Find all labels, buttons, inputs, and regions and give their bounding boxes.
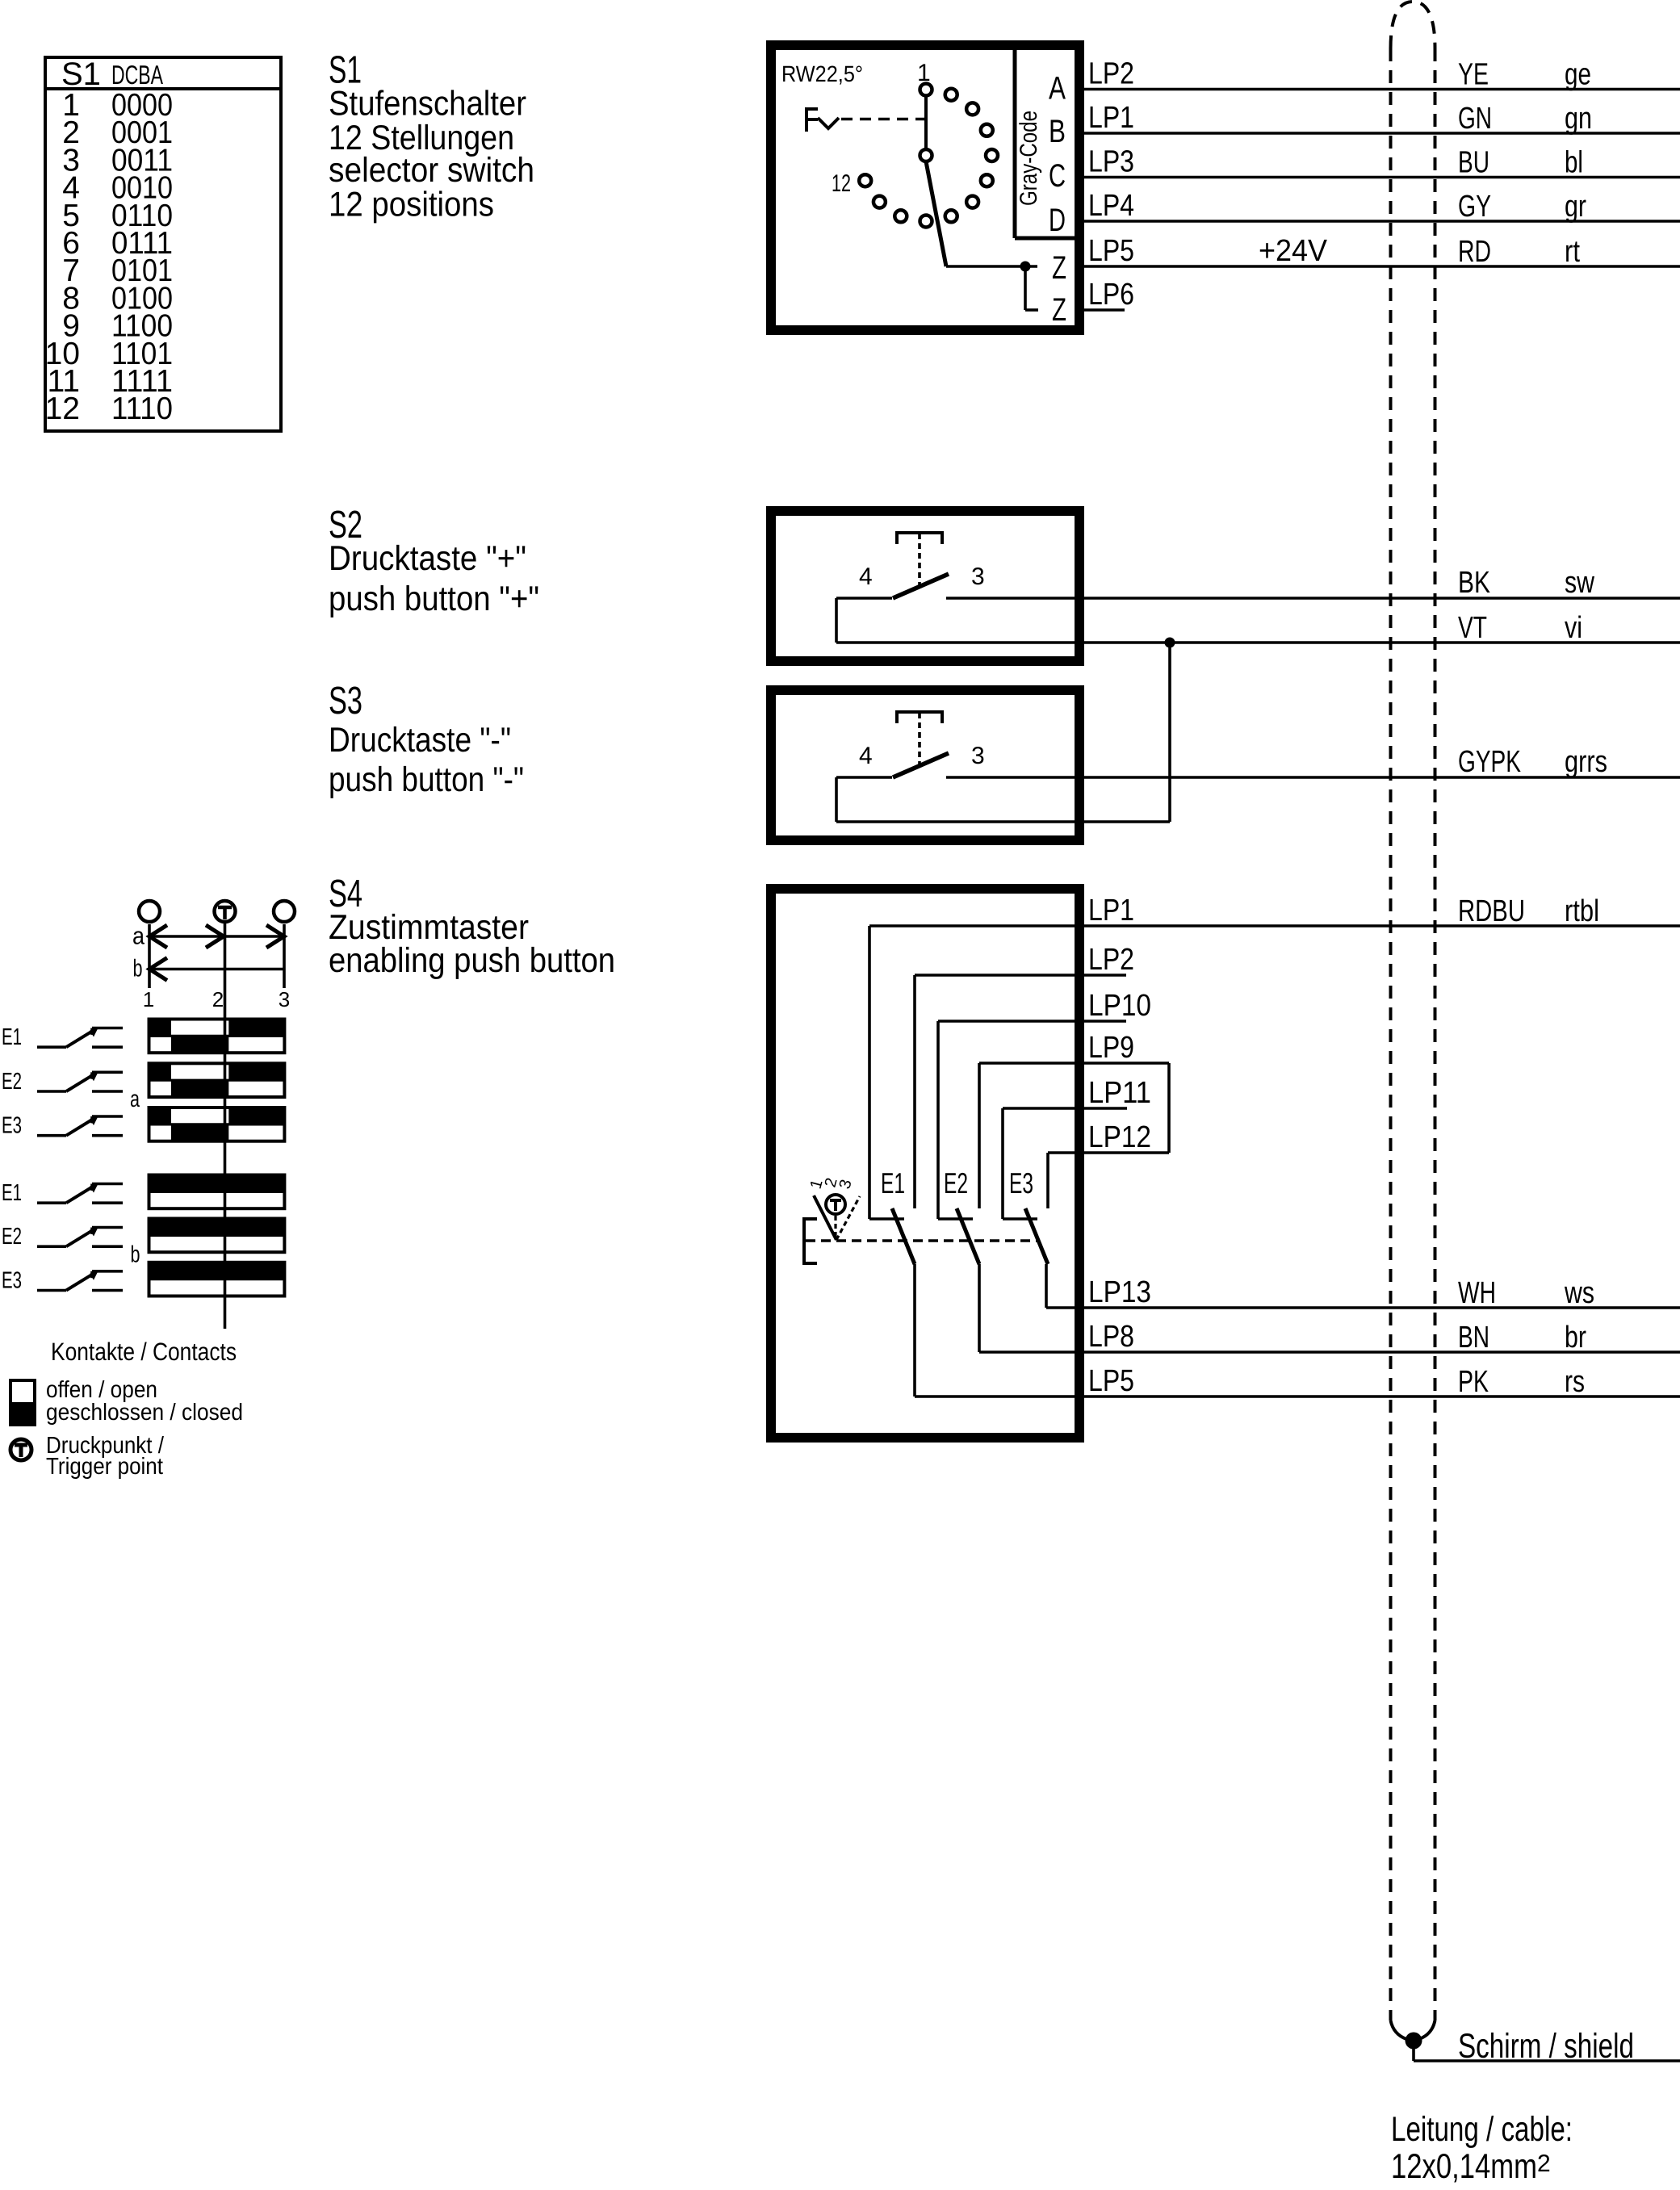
svg-text:b: b: [131, 1242, 140, 1267]
svg-text:D: D: [1049, 203, 1066, 238]
E2 moving lead: [37, 1245, 66, 1248]
travel diagram circle released: [139, 901, 160, 922]
svg-text:GY: GY: [1458, 190, 1491, 224]
svg-text:LP2: LP2: [1088, 943, 1134, 977]
travel diagram right tick line: [283, 924, 286, 988]
wire LP10 stub: [938, 1020, 1126, 1023]
svg-text:geschlossen / closed: geschlossen / closed: [46, 1400, 243, 1426]
S1 manual actuator symbol: [805, 107, 808, 132]
S4 actuator bracket: [804, 1219, 817, 1263]
svg-text:4: 4: [859, 743, 873, 769]
S1 code table header divider: [45, 87, 281, 90]
svg-text:rs: rs: [1565, 1365, 1585, 1399]
travel diagram circle trigger point: [215, 901, 236, 922]
wire riser S3 to VT junction: [1168, 643, 1171, 822]
E2 upper fixed contact: [92, 1226, 123, 1229]
svg-text:a: a: [130, 1087, 140, 1112]
svg-text:3: 3: [836, 1178, 856, 1191]
svg-text:E1: E1: [2, 1180, 22, 1206]
svg-text:BN: BN: [1458, 1321, 1489, 1355]
E2 upper fixed contact: [92, 1071, 123, 1074]
svg-text:Kontakte / Contacts: Kontakte / Contacts: [51, 1338, 237, 1366]
svg-text:Schirm / shield: Schirm / shield: [1458, 2027, 1634, 2066]
contact state bar E3 group b: [149, 1262, 285, 1279]
svg-text:A: A: [1049, 71, 1066, 107]
contact state bar E1 group b: [149, 1175, 285, 1192]
svg-text:4: 4: [859, 563, 873, 590]
E3 blade: [66, 1272, 96, 1291]
shield lead vertical: [1412, 2048, 1415, 2061]
svg-text:RD: RD: [1458, 235, 1491, 269]
svg-text:Z: Z: [1052, 250, 1066, 286]
svg-text:E3: E3: [2, 1113, 22, 1139]
contact state bar E3 group a: [149, 1108, 171, 1124]
E1 blade: [66, 1029, 96, 1048]
wire LP8 BN: [979, 1350, 1680, 1354]
svg-text:S1: S1: [61, 57, 101, 92]
S1 rotary contact position 3: [966, 103, 978, 115]
wire from S3 pin 4: [836, 820, 1170, 823]
S1 wiper arm: [926, 161, 946, 266]
svg-text:+24V: +24V: [1259, 234, 1328, 268]
wire LP13 WH: [1046, 1306, 1680, 1309]
wire LP1 GN: [1078, 132, 1680, 135]
svg-text:LP1: LP1: [1088, 101, 1134, 135]
legend open state box: [10, 1380, 35, 1404]
S1 rotor hub contact: [920, 149, 932, 161]
shield gather right curl: [1419, 2020, 1435, 2039]
svg-text:12x0,14mm: 12x0,14mm: [1391, 2147, 1537, 2186]
svg-text:push button "-": push button "-": [329, 760, 524, 799]
wire LP6 stub: [1078, 308, 1125, 312]
S1 rotary contact position 11: [874, 196, 886, 208]
S4 travel line 1 solid: [814, 1195, 836, 1240]
S4 internal wire LP2 vertical: [913, 975, 916, 1208]
junction node Z: [1020, 262, 1031, 272]
E3 blade: [66, 1117, 96, 1136]
svg-text:RW22,5°: RW22,5°: [781, 61, 863, 86]
travel b left arrowhead: [149, 958, 167, 981]
svg-text:LP12: LP12: [1088, 1120, 1151, 1154]
E3 upper fixed contact: [92, 1115, 123, 1118]
svg-text:LP10: LP10: [1088, 989, 1151, 1023]
push button S2 enclosure: [771, 511, 1079, 661]
S4 internal wire LP1 vertical: [868, 926, 871, 1219]
travel diagram centre line: [224, 923, 227, 1329]
S4 internal wire LP12 vertical: [1046, 1153, 1049, 1208]
S4 E3 fixed contact seat: [1003, 1217, 1037, 1221]
svg-text:S3: S3: [329, 680, 362, 722]
enabling push button S4 enclosure: [771, 889, 1079, 1438]
svg-text:LP6: LP6: [1088, 278, 1134, 312]
svg-text:LP9: LP9: [1088, 1031, 1134, 1065]
E1 lower fixed contact: [92, 1201, 123, 1204]
S4 E2 fixed contact seat: [938, 1217, 973, 1221]
svg-text:12: 12: [832, 170, 851, 197]
E1 lower fixed contact: [92, 1045, 123, 1049]
S4 E1 output vertical: [913, 1264, 916, 1396]
svg-text:E2: E2: [2, 1069, 22, 1095]
svg-text:E2: E2: [944, 1166, 968, 1200]
svg-text:RDBU: RDBU: [1458, 894, 1525, 928]
svg-text:3: 3: [971, 743, 985, 769]
svg-text:gn: gn: [1565, 102, 1592, 136]
S4 travel line 3 dashed: [836, 1196, 860, 1240]
svg-text:BK: BK: [1458, 566, 1490, 600]
contact state bar E1 group a: [149, 1020, 171, 1036]
S3 actuator dashed stem: [918, 713, 921, 765]
svg-text:grrs: grrs: [1565, 745, 1607, 779]
Gray-Code block left edge: [1013, 47, 1017, 238]
travel diagram left tick line: [148, 924, 151, 988]
svg-text:PK: PK: [1458, 1365, 1489, 1399]
svg-text:12: 12: [45, 392, 80, 426]
svg-text:DCBA: DCBA: [111, 60, 163, 90]
svg-text:WH: WH: [1458, 1276, 1496, 1310]
S1 code table frame: [45, 57, 281, 431]
S1 rotary contact position 7: [966, 196, 978, 208]
E3 moving lead: [37, 1289, 66, 1292]
svg-text:3: 3: [971, 563, 985, 590]
wire LP9 stub / option box top: [979, 1062, 1169, 1065]
wire Z jumper vertical: [1024, 266, 1027, 310]
wire LP12 stub / option box bottom: [1048, 1151, 1169, 1154]
legend trigger point symbol: [10, 1439, 31, 1460]
svg-text:ge: ge: [1565, 58, 1591, 92]
svg-text:b: b: [133, 956, 143, 982]
svg-text:enabling push button: enabling push button: [329, 941, 615, 980]
svg-text:br: br: [1565, 1321, 1586, 1355]
wire LP4 GY: [1078, 220, 1680, 223]
travel a span line: [149, 935, 284, 937]
E2 lower fixed contact: [92, 1245, 123, 1248]
S1 rotary contact position 9: [920, 216, 932, 228]
S4 E3 output vertical: [1045, 1264, 1048, 1308]
wire wiper to Z terminal: [946, 265, 1037, 268]
svg-text:B: B: [1049, 114, 1066, 149]
S2 lower lead vertical: [835, 598, 838, 643]
shield node dot: [1406, 2033, 1422, 2050]
travel diagram circle pressed: [274, 901, 295, 922]
svg-text:GYPK: GYPK: [1458, 745, 1521, 779]
wire from contact 1 to hub: [924, 96, 928, 149]
S1 rotary contact position 2: [945, 89, 957, 101]
wire LP2 stub: [915, 974, 1126, 977]
svg-text:E1: E1: [881, 1166, 905, 1200]
S4 trigger point symbol: [826, 1195, 845, 1214]
S2 terminal 4 lead: [836, 597, 892, 600]
svg-text:Drucktaste "-": Drucktaste "-": [329, 721, 511, 760]
wire shield: [1414, 2059, 1680, 2062]
svg-text:gr: gr: [1565, 190, 1586, 224]
svg-text:LP1: LP1: [1088, 894, 1134, 928]
svg-text:LP5: LP5: [1088, 234, 1134, 268]
S1 rotary contact position 8: [945, 210, 957, 222]
svg-text:push button "+": push button "+": [329, 580, 539, 618]
S4 E1 fixed contact seat: [869, 1217, 904, 1221]
svg-text:LP3: LP3: [1088, 145, 1134, 179]
S3 terminal 4 lead: [836, 776, 892, 779]
svg-text:Leitung / cable:: Leitung / cable:: [1391, 2110, 1573, 2149]
svg-text:1: 1: [917, 60, 931, 86]
svg-text:Z: Z: [1052, 292, 1066, 328]
svg-text:YE: YE: [1458, 58, 1489, 92]
svg-text:selector switch: selector switch: [329, 151, 534, 190]
svg-text:12 positions: 12 positions: [329, 186, 494, 224]
E3 moving lead: [37, 1134, 66, 1137]
junction node VT wire: [1165, 638, 1175, 648]
cable shield left dashed line: [1389, 48, 1393, 2020]
svg-text:E1: E1: [2, 1024, 22, 1050]
S3 lower lead vertical: [835, 777, 838, 822]
wire LP5 PK: [915, 1395, 1680, 1398]
wire GYPK from S3 pin 3: [946, 776, 1680, 779]
svg-text:LP4: LP4: [1088, 189, 1134, 223]
selector switch S1 enclosure: [771, 45, 1079, 330]
S4 contact blade E1: [892, 1208, 915, 1264]
S2 actuator bracket: [897, 533, 942, 544]
wire VT from S2 pin 4: [836, 641, 1680, 644]
E2 moving lead: [37, 1090, 66, 1093]
svg-text:E3: E3: [1009, 1166, 1033, 1200]
svg-text:1110: 1110: [111, 392, 173, 426]
S1 rotary contact position 5: [986, 149, 998, 161]
E3 lower fixed contact: [92, 1289, 123, 1292]
E2 lower fixed contact: [92, 1090, 123, 1093]
S4 mechanical coupling dashed line: [806, 1239, 1037, 1242]
E1 upper fixed contact: [92, 1183, 123, 1186]
option box right edge: [1167, 1063, 1171, 1153]
svg-text:GN: GN: [1458, 102, 1492, 136]
svg-text:E3: E3: [2, 1267, 22, 1293]
S4 internal wire LP9 vertical: [978, 1063, 981, 1208]
svg-text:Gray-Code: Gray-Code: [1016, 111, 1042, 206]
S4 E2 output vertical: [978, 1264, 981, 1352]
S3 actuator bracket: [897, 712, 942, 723]
travel a left arrowhead: [149, 925, 167, 948]
svg-text:2: 2: [1537, 2150, 1551, 2177]
shield gather left curl: [1391, 2020, 1407, 2039]
E2 blade: [66, 1229, 96, 1247]
wire LP5 RD: [1078, 265, 1680, 268]
E3 lower fixed contact: [92, 1134, 123, 1137]
S4 trigger dashed stem: [834, 1216, 836, 1237]
S4 contact blade E2: [957, 1208, 979, 1264]
S4 internal wire LP10 vertical: [936, 1021, 940, 1219]
svg-text:vi: vi: [1565, 611, 1582, 645]
E1 blade: [66, 1185, 96, 1204]
svg-text:2: 2: [212, 987, 224, 1011]
S1 spring return arrow: [818, 118, 839, 128]
S1 rotary contact position 6: [981, 174, 993, 186]
svg-text:rtbl: rtbl: [1565, 894, 1599, 928]
wire BK from S2 pin 3: [946, 597, 1680, 600]
svg-text:1: 1: [143, 987, 154, 1011]
svg-text:Stufenschalter: Stufenschalter: [329, 85, 526, 124]
travel a mid arrowhead: [206, 925, 224, 948]
svg-text:BU: BU: [1458, 146, 1489, 180]
wire LP2 YE: [1078, 88, 1680, 91]
legend closed state box: [10, 1404, 35, 1425]
cable shield right dashed line: [1434, 48, 1437, 2020]
svg-text:LP2: LP2: [1088, 57, 1134, 91]
E2 blade: [66, 1073, 96, 1091]
contact state bar E2 group a: [149, 1063, 171, 1080]
S1 rotary contact position 1: [920, 84, 932, 96]
svg-text:E2: E2: [2, 1224, 22, 1250]
travel b span line: [149, 968, 284, 970]
svg-text:a: a: [132, 923, 145, 950]
svg-text:ws: ws: [1564, 1276, 1594, 1310]
S1 rotary contact position 10: [894, 210, 907, 222]
svg-text:LP13: LP13: [1088, 1275, 1151, 1309]
S4 contact blade E3: [1025, 1208, 1048, 1264]
E1 moving lead: [37, 1201, 66, 1204]
S2 contact blade: [893, 574, 949, 598]
svg-text:sw: sw: [1565, 566, 1594, 600]
S4 internal wire LP11 vertical: [1001, 1108, 1004, 1219]
svg-text:Drucktaste "+": Drucktaste "+": [329, 539, 526, 578]
Gray-Code block bottom edge: [1015, 237, 1079, 241]
svg-text:bl: bl: [1565, 146, 1583, 180]
svg-text:3: 3: [279, 987, 290, 1011]
wire LP11 stub: [1003, 1107, 1127, 1110]
push button S3 enclosure: [771, 690, 1079, 840]
svg-text:LP11: LP11: [1088, 1076, 1151, 1110]
wire LP1 RDBU: [869, 924, 1680, 928]
E1 moving lead: [37, 1045, 66, 1049]
svg-text:VT: VT: [1458, 611, 1487, 645]
E1 upper fixed contact: [92, 1027, 123, 1030]
S1 actuator dashed link: [841, 118, 924, 121]
wire LP3 BU: [1078, 176, 1680, 179]
svg-text:LP8: LP8: [1088, 1320, 1134, 1354]
S1 rotary contact position 12: [859, 174, 871, 186]
contact state bar E2 group b: [149, 1219, 285, 1236]
svg-text:C: C: [1049, 158, 1066, 194]
svg-text:rt: rt: [1565, 235, 1580, 269]
svg-text:Trigger point: Trigger point: [46, 1454, 163, 1480]
cable shield top arc: [1391, 2, 1435, 48]
wire Z jumper horizontal: [1025, 308, 1038, 312]
travel a right arrowhead: [266, 925, 284, 948]
E3 upper fixed contact: [92, 1270, 123, 1273]
S1 rotary contact position 4: [981, 124, 993, 136]
S3 contact blade: [893, 753, 949, 777]
svg-text:LP5: LP5: [1088, 1364, 1134, 1398]
S2 actuator dashed stem: [918, 534, 921, 586]
